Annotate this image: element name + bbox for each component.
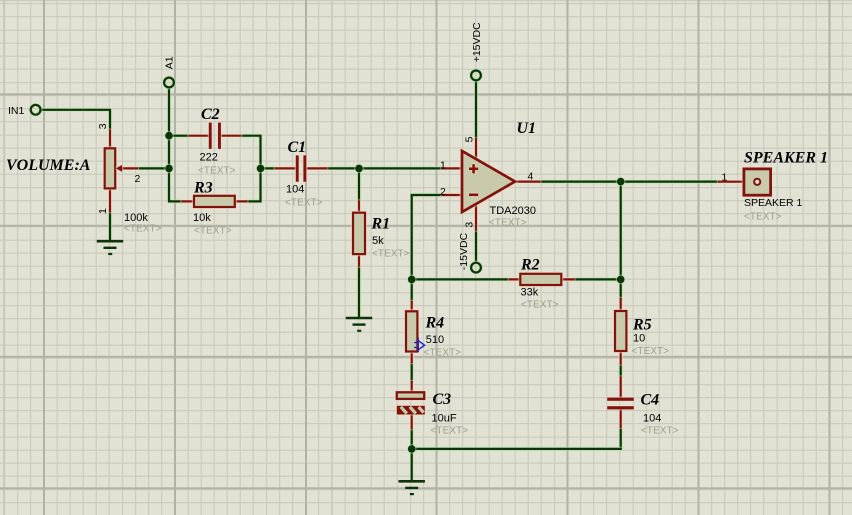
svg-text:1: 1	[722, 172, 728, 184]
wire R4 bottom to C3 top	[411, 363, 413, 381]
svg-text:<TEXT>: <TEXT>	[489, 218, 527, 229]
svg-text:<TEXT>: <TEXT>	[521, 300, 559, 311]
wire R5 bottom to C4 top	[620, 365, 622, 377]
wire bottom run	[412, 448, 621, 450]
svg-text:C4: C4	[641, 391, 660, 408]
svg-text:<TEXT>: <TEXT>	[632, 346, 670, 357]
svg-text:2: 2	[440, 186, 446, 198]
terminal A1	[164, 78, 174, 88]
wire node to C2 left	[169, 135, 188, 137]
wire C2 right down to R3 right	[241, 136, 260, 202]
svg-text:<TEXT>: <TEXT>	[194, 226, 232, 237]
svg-text:C1: C1	[288, 139, 307, 156]
svg-text:VOLUME:A: VOLUME:A	[6, 157, 91, 174]
wire C1 right to opamp pin1	[327, 167, 441, 169]
svg-text:A1: A1	[164, 56, 176, 69]
svg-text:10k: 10k	[193, 212, 211, 224]
capacitor C3 (electrolytic)	[397, 381, 425, 429]
capacitor C1	[275, 155, 328, 181]
svg-text:C3: C3	[433, 391, 452, 408]
wire feedback node to R2 left	[412, 278, 509, 280]
wire opamp pin3 to -15VDC terminal	[475, 231, 477, 263]
svg-text:SPEAKER 1: SPEAKER 1	[744, 197, 803, 209]
potentiometer RV VOLUME	[105, 129, 138, 212]
svg-text:-15VDC: -15VDC	[458, 232, 470, 270]
wire node to R5 top	[620, 279, 622, 298]
resistor R5	[615, 298, 626, 365]
origin marker (blue)	[414, 337, 424, 352]
svg-text:<TEXT>: <TEXT>	[124, 224, 162, 235]
svg-text:10uF: 10uF	[432, 413, 457, 425]
svg-text:1: 1	[440, 159, 446, 171]
svg-text:<TEXT>: <TEXT>	[744, 212, 782, 223]
svg-text:R4: R4	[425, 315, 445, 332]
svg-text:R2: R2	[520, 257, 540, 274]
capacitor C2	[188, 123, 241, 149]
svg-text:510: 510	[426, 334, 444, 346]
svg-text:104: 104	[643, 413, 661, 425]
wire opamp output to speaker	[541, 181, 718, 183]
svg-text:5: 5	[463, 136, 475, 142]
svg-text:IN1: IN1	[8, 105, 25, 117]
svg-text:C2: C2	[201, 106, 220, 123]
svg-text:SPEAKER 1: SPEAKER 1	[744, 149, 828, 166]
resistor R4	[406, 301, 417, 364]
wire pot wiper to node	[138, 167, 169, 169]
resistor R2	[509, 274, 575, 285]
speaker SPEAKER 1	[718, 169, 771, 195]
terminal +15VDC	[471, 71, 481, 81]
svg-text:<TEXT>: <TEXT>	[431, 426, 469, 437]
resistor R1	[353, 200, 365, 267]
svg-text:<TEXT>: <TEXT>	[285, 198, 323, 209]
junction node C2/R3 right	[257, 165, 265, 173]
wire pot pin1 to ground	[109, 212, 111, 240]
wire output node down to R2 right node	[620, 182, 622, 280]
svg-text:U1: U1	[517, 120, 537, 137]
terminal -15VDC	[471, 263, 481, 273]
wire A1 vertical bus down to R3 left	[169, 87, 181, 201]
svg-text:+15VDC: +15VDC	[471, 22, 483, 62]
junction node feedback	[408, 276, 416, 284]
wire C3 bottom to bottom node	[411, 429, 413, 449]
ground at bottom node	[399, 481, 425, 494]
wire C4 bottom to bottom run	[620, 428, 622, 449]
svg-text:R5: R5	[632, 317, 652, 334]
svg-text:5k: 5k	[372, 235, 384, 247]
wire R2 right to node	[575, 278, 621, 280]
svg-text:222: 222	[200, 152, 218, 164]
wire node to R4 top	[411, 279, 413, 300]
junction node output	[617, 178, 625, 186]
wire bottom node to ground	[411, 449, 413, 480]
svg-text:R1: R1	[371, 216, 391, 233]
svg-text:R3: R3	[193, 180, 213, 197]
junction node bottom	[408, 445, 416, 453]
svg-text:3: 3	[463, 222, 475, 228]
svg-text:100k: 100k	[124, 212, 148, 224]
svg-text:<TEXT>: <TEXT>	[424, 348, 462, 359]
junction node R1 top	[355, 165, 363, 173]
svg-text:3: 3	[97, 123, 109, 129]
wire IN1 to pot pin3	[41, 110, 111, 130]
ground at R1	[346, 318, 372, 331]
svg-text:33k: 33k	[521, 287, 539, 299]
junction node A1/C2	[165, 132, 173, 140]
svg-text:<TEXT>: <TEXT>	[372, 249, 410, 260]
junction node wiper	[165, 165, 173, 173]
wire node B to C1 left	[261, 167, 275, 169]
svg-text:1: 1	[97, 208, 109, 214]
junction node R2 right	[617, 276, 625, 284]
wire node C down to R1	[358, 168, 360, 200]
op-amp U1 TDA2030	[441, 138, 540, 231]
resistor R3	[181, 196, 247, 207]
svg-text:<TEXT>: <TEXT>	[641, 426, 679, 437]
svg-text:104: 104	[286, 184, 304, 196]
wire +15VDC terminal to opamp pin5	[475, 80, 477, 138]
svg-text:2: 2	[135, 173, 141, 185]
wire opamp pin2 to feedback node	[412, 195, 442, 279]
terminal IN1	[31, 105, 41, 115]
svg-text:TDA2030: TDA2030	[490, 205, 536, 217]
svg-text:<TEXT>: <TEXT>	[198, 166, 236, 177]
ground at volume pot	[97, 241, 123, 254]
svg-text:10: 10	[633, 333, 645, 345]
wire R1 bottom to ground	[358, 267, 360, 317]
svg-text:4: 4	[528, 170, 534, 182]
capacitor C4	[607, 376, 634, 428]
